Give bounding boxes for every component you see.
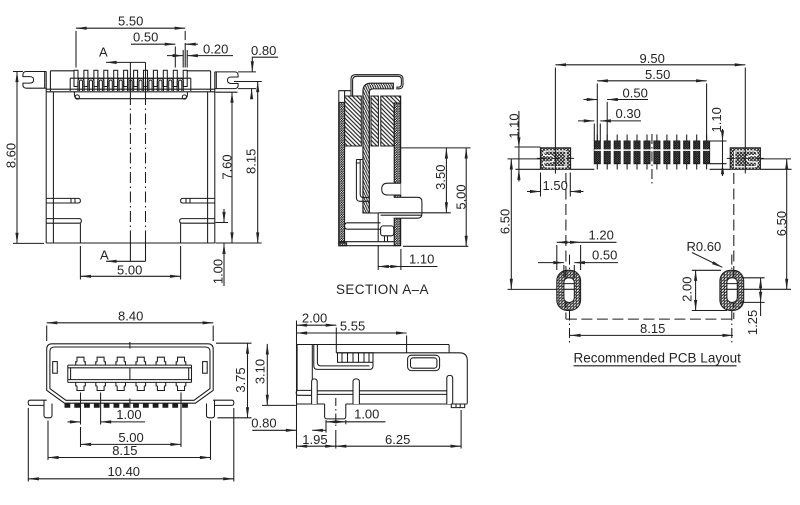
hook right fold tick bbox=[186, 198, 190, 203]
comb end walls bbox=[70, 78, 191, 91]
part centreline (vertical dash-dot) bbox=[651, 134, 653, 186]
left oval slot (white) bbox=[564, 278, 574, 303]
right 1.10 top extension bbox=[710, 141, 727, 164]
dim 0.30 extensions bbox=[594, 124, 600, 142]
svg-text:0.50: 0.50 bbox=[592, 248, 617, 263]
housing top cap outline bbox=[351, 75, 394, 96]
inner contact left L-line inner bbox=[360, 160, 369, 198]
big pad horizontal centrelines (dash-dot) bbox=[537, 157, 764, 159]
lower hook right wall drop bbox=[180, 223, 182, 243]
svg-text:1.00: 1.00 bbox=[210, 259, 225, 284]
pad bottom baseline segments bbox=[516, 168, 792, 170]
svg-text:3.50: 3.50 bbox=[433, 165, 448, 190]
contact pins row (12 pins) bbox=[74, 70, 187, 86]
outer edges bbox=[339, 96, 401, 246]
dim 0.50 arrows bbox=[131, 43, 175, 45]
dim 10.40 line bbox=[28, 478, 234, 480]
dim 10.40 extensions bbox=[28, 408, 234, 482]
side tab inner line bbox=[381, 214, 422, 216]
svg-text:1.10: 1.10 bbox=[409, 252, 434, 267]
upper side slot hook left bbox=[46, 198, 80, 203]
dim 1.20 line bbox=[557, 241, 581, 243]
body left inner edge bbox=[311, 345, 313, 391]
shell left inner wall bbox=[52, 92, 54, 243]
foot lead lines to bottom bbox=[385, 236, 388, 242]
dim 2.00 extensions bbox=[692, 270, 727, 310]
dim 0.30 arrows bbox=[578, 120, 594, 122]
tongue band top lines bbox=[68, 365, 192, 368]
svg-text:6.50: 6.50 bbox=[498, 209, 513, 234]
shell outer outline bbox=[47, 344, 214, 403]
tongue band right cap bbox=[189, 365, 192, 382]
dim 1.20 extensions bbox=[557, 245, 581, 270]
dim 0.50 arrows bbox=[584, 99, 598, 101]
dim 1.00 line bbox=[326, 421, 346, 423]
dim 8.15 extensions bbox=[48, 421, 211, 461]
svg-text:0.80: 0.80 bbox=[251, 43, 276, 58]
SMT pin 1 (rounded top) bbox=[312, 379, 318, 404]
svg-text:5.00: 5.00 bbox=[117, 263, 142, 278]
dim 1.00 arrows bbox=[68, 421, 81, 423]
shell inner outline bbox=[50, 347, 210, 400]
left tab pad fork symbol (white) bbox=[544, 151, 566, 167]
section arrow bottom bbox=[106, 260, 146, 262]
dim 5.00 line bbox=[81, 443, 182, 445]
dim 0.80 right arrow bbox=[312, 429, 326, 431]
housing top right hook bbox=[394, 75, 404, 89]
section line A-A left vertical bbox=[129, 62, 131, 261]
dim 2.00 extension bbox=[335, 328, 337, 345]
dim 1.95 line bbox=[297, 445, 336, 447]
dim 5.00 extensions bbox=[81, 393, 182, 448]
dim 0.80 left line/arrow bbox=[252, 429, 296, 431]
center pin lower extension line bbox=[377, 213, 379, 242]
right tab pad fork symbol (white) bbox=[735, 151, 757, 167]
dim 0.20 arrows bbox=[167, 55, 183, 57]
bottom standoff dashes bbox=[65, 403, 189, 407]
under-pin bracket with curled ends bbox=[74, 92, 187, 99]
dashed body outline bottom bbox=[566, 318, 734, 320]
dim 0.50 oval arrows bbox=[538, 262, 564, 264]
dim 7.60 extension bbox=[216, 91, 238, 93]
solder notch bbox=[325, 404, 346, 419]
contact stack dividers bbox=[342, 353, 369, 363]
dim 3.10 bottom extension bbox=[262, 404, 296, 406]
left reference extension line bbox=[296, 321, 298, 449]
dim 3.75 line bbox=[247, 343, 249, 418]
dim 8.15 extension bbox=[234, 81, 262, 83]
svg-text:8.15: 8.15 bbox=[640, 321, 665, 336]
dim 1.25 tail bbox=[760, 302, 762, 316]
svg-text:5.55: 5.55 bbox=[340, 318, 365, 333]
dim 0.50 extensions bbox=[175, 43, 185, 68]
right shield wall mid (stippled) bbox=[394, 195, 400, 197]
side solder tab bbox=[401, 197, 422, 218]
dim 9.50 extensions (pad centrelines) bbox=[555, 68, 745, 174]
svg-text:5.00: 5.00 bbox=[454, 184, 469, 209]
dim 6.50 right line bbox=[786, 159, 788, 289]
svg-text:0.20: 0.20 bbox=[203, 42, 228, 57]
body top edge bbox=[297, 344, 449, 346]
contact loops inner lines bbox=[79, 80, 181, 91]
latch window outer bbox=[408, 355, 440, 370]
body bottom right segment bbox=[346, 403, 468, 405]
left wall top cap bbox=[339, 91, 351, 103]
body bottom left segment bbox=[296, 403, 324, 405]
svg-text:1.25: 1.25 bbox=[745, 310, 760, 335]
contact stack bar bbox=[338, 353, 374, 363]
plastic body hatch middle block bbox=[371, 96, 378, 146]
dim 1.10 left top extension bbox=[515, 146, 541, 148]
left slot ticks bbox=[564, 284, 574, 290]
dim 5.50 line bbox=[597, 80, 706, 82]
dim 7.60 line bbox=[231, 92, 233, 243]
center contact bottom edge bbox=[363, 212, 378, 214]
labels side bbox=[302, 311, 410, 448]
svg-text:0.50: 0.50 bbox=[133, 30, 158, 45]
SMT pin 2 (rounded top) bbox=[353, 379, 359, 404]
dim 8.40 extensions bbox=[47, 326, 214, 342]
bent contact over top (hatched band) bbox=[363, 83, 394, 213]
right tab top extension bbox=[238, 71, 256, 73]
dim 2.00 line bbox=[297, 324, 337, 326]
rear feet pads bbox=[451, 404, 464, 408]
signal pads white midline bbox=[594, 149, 709, 151]
dim 8.15 line bbox=[570, 334, 733, 336]
svg-text:1.00: 1.00 bbox=[354, 407, 379, 422]
left leg bar bbox=[296, 390, 311, 395]
hook left fold tick bbox=[71, 198, 75, 203]
svg-text:1.10: 1.10 bbox=[506, 113, 521, 138]
dim 3.75 extensions bbox=[216, 343, 252, 418]
labels front bbox=[108, 309, 277, 479]
dashed body outline left bbox=[565, 173, 567, 319]
svg-text:10.40: 10.40 bbox=[108, 464, 141, 479]
dim 0.80 leader bbox=[252, 57, 278, 72]
svg-text:3.10: 3.10 bbox=[253, 359, 268, 384]
left mounting tab fork bbox=[23, 72, 46, 89]
dim 1.25 line bbox=[760, 278, 762, 303]
shell right outer wall bbox=[214, 89, 216, 243]
svg-text:3.75: 3.75 bbox=[233, 367, 248, 392]
dim 1.50 arrows bbox=[527, 191, 541, 193]
svg-text:1.50: 1.50 bbox=[543, 178, 568, 193]
svg-text:6.25: 6.25 bbox=[385, 432, 410, 447]
right slot ticks bbox=[727, 284, 737, 290]
dim 1.10 right bracket bbox=[722, 129, 724, 141]
contact rails bbox=[317, 391, 447, 395]
dim 0.80 lower arrow bbox=[251, 89, 253, 99]
dim 2.00 line bbox=[695, 270, 697, 310]
latch window (white) bbox=[382, 183, 401, 195]
dim 1.10 left bracket bbox=[518, 111, 520, 148]
dim 6.25 line bbox=[336, 445, 461, 447]
svg-text:7.60: 7.60 bbox=[219, 154, 234, 179]
dim 8.60 line bbox=[16, 72, 18, 244]
dim 6.50 right extensions bbox=[744, 159, 791, 289]
left tab bend lines bbox=[45, 71, 51, 92]
svg-text:6.50: 6.50 bbox=[774, 211, 789, 236]
dim 3.50 bottom extension bbox=[378, 212, 451, 214]
upper side slot hook right bbox=[181, 198, 215, 203]
labels section bbox=[336, 165, 469, 297]
dim 5.00 extensions bbox=[80, 246, 180, 280]
svg-text:8.60: 8.60 bbox=[3, 143, 18, 168]
dim 1.00 extensions bbox=[81, 393, 101, 425]
dim 8.15 line bbox=[257, 82, 259, 244]
svg-text:SECTION A–A: SECTION A–A bbox=[336, 282, 429, 297]
housing hook inner line bbox=[392, 76, 401, 87]
dim 8.60 extensions bbox=[13, 72, 44, 244]
contact strip top line behind pins bbox=[70, 77, 191, 79]
left oval centreline bbox=[569, 255, 571, 343]
right mounting tab fork bbox=[215, 72, 238, 89]
bottom extension right bbox=[216, 242, 262, 244]
svg-text:8.15: 8.15 bbox=[112, 443, 137, 458]
dims shared top extension bbox=[401, 147, 471, 149]
top-left folded contact inner bbox=[317, 345, 369, 366]
bottom right foot rounded rect bbox=[381, 226, 394, 236]
dim 1.00 arrows (right side) bbox=[223, 209, 225, 223]
right leg vertical stub bbox=[207, 400, 215, 418]
centreline ticks bbox=[129, 342, 131, 408]
SMT pin 3 (rounded top) bbox=[447, 375, 453, 404]
left shield wall (stippled) bbox=[339, 102, 345, 243]
section line A-A right vertical bbox=[145, 62, 147, 261]
svg-text:A: A bbox=[100, 248, 109, 263]
bottom inner line bbox=[339, 241, 394, 243]
right big tab pad (hatched) bbox=[730, 148, 760, 170]
section arrow top bbox=[106, 61, 146, 63]
inner contact left L-line outer bbox=[356, 160, 369, 202]
dim 1.10 tail bbox=[401, 266, 438, 268]
svg-text:1.20: 1.20 bbox=[589, 228, 614, 243]
right wall spring detent bbox=[203, 362, 208, 374]
right oval slot (white) bbox=[727, 278, 737, 303]
tongue band bottom lines bbox=[68, 380, 192, 383]
latch window inner bbox=[411, 358, 437, 368]
notch centreline (dash-dot) bbox=[335, 398, 337, 428]
shell right inner wall bbox=[207, 92, 209, 243]
bracket right curl bbox=[182, 95, 186, 99]
dim 5.50 line bbox=[76, 27, 185, 29]
dim 6.25 extensions bbox=[336, 410, 461, 449]
dim 6.50 left extensions bbox=[508, 159, 557, 290]
title underline bbox=[574, 365, 737, 367]
shell top plate line upper bbox=[46, 88, 215, 90]
housing top cap inner line bbox=[353, 76, 392, 96]
top step right bbox=[448, 345, 450, 353]
svg-text:0.80: 0.80 bbox=[251, 416, 276, 431]
dim 9.50 line bbox=[555, 64, 745, 66]
left leg horizontal bar bbox=[28, 400, 47, 405]
lower hook left bbox=[46, 219, 81, 224]
right shield wall lower (stippled) bbox=[394, 218, 400, 245]
dim 1.20 tail bbox=[581, 241, 617, 243]
dim 3.10 line bbox=[266, 344, 268, 406]
right tab bottom extension bbox=[238, 88, 256, 90]
dim 5.55 extension bbox=[406, 336, 408, 353]
dim 6.50 left line bbox=[510, 159, 512, 290]
svg-text:0.50: 0.50 bbox=[623, 86, 648, 101]
lower hook right bbox=[180, 219, 215, 224]
labels top view bbox=[3, 14, 276, 285]
svg-text:5.50: 5.50 bbox=[645, 67, 670, 82]
right shield wall upper (stippled) bbox=[394, 103, 400, 183]
bottom extension line bbox=[403, 245, 468, 247]
svg-text:R0.60: R0.60 bbox=[687, 239, 722, 254]
svg-text:9.50: 9.50 bbox=[640, 51, 665, 66]
bottom shield left end (stippled) bbox=[339, 243, 347, 246]
svg-text:2.00: 2.00 bbox=[679, 277, 694, 302]
tongue band left cap bbox=[68, 365, 71, 382]
top-left folded contact outer bbox=[314, 345, 373, 370]
dim 1.10 line with arrows bbox=[378, 266, 401, 268]
recess shelf line bbox=[336, 353, 467, 404]
left leg vertical stub bbox=[44, 400, 52, 418]
svg-text:8.15: 8.15 bbox=[244, 149, 259, 174]
svg-text:1.95: 1.95 bbox=[302, 432, 327, 447]
shell left outer wall bbox=[45, 88, 47, 243]
recess step left bbox=[335, 345, 337, 353]
dim 1.00 extensions bbox=[326, 420, 346, 433]
plastic body hatch right block bbox=[381, 96, 401, 146]
plastic body hatch left block bbox=[345, 96, 362, 146]
shell top plate line lower bbox=[46, 91, 215, 93]
svg-text:0.30: 0.30 bbox=[616, 106, 641, 121]
dim 5.50 extensions bbox=[597, 84, 706, 142]
shell bottom edge bbox=[46, 242, 215, 244]
dim 8.40 line bbox=[47, 322, 214, 324]
right oval centreline bbox=[731, 255, 733, 343]
dim 5.00 line bbox=[465, 148, 467, 246]
signal pad centre ticks bbox=[597, 135, 706, 170]
dim 0.20 extensions (pin edges) bbox=[183, 50, 187, 68]
dim 1.00 extension bbox=[216, 222, 229, 224]
dim 1.25 extensions bbox=[740, 278, 765, 303]
12 signal pads (hatched) bbox=[594, 141, 709, 164]
right leg horizontal bar bbox=[213, 400, 234, 405]
svg-text:1.10: 1.10 bbox=[709, 107, 724, 132]
dim 0.50 oval extensions bbox=[564, 265, 574, 278]
dim 3.50 line bbox=[445, 148, 447, 213]
body left outer edge bbox=[296, 345, 298, 391]
left wall spring detent bbox=[53, 362, 58, 374]
dim 5.55 line bbox=[297, 332, 407, 334]
shell top edge segment left of pins bbox=[50, 70, 74, 72]
dim 8.15 line bbox=[48, 457, 211, 459]
dashed body outline right bbox=[733, 173, 735, 319]
inner contact top tick bbox=[356, 160, 363, 164]
dim 1.00 tail bbox=[346, 421, 386, 423]
left big tab pad (hatched) bbox=[540, 148, 570, 170]
svg-text:1.00: 1.00 bbox=[116, 407, 141, 422]
lower contact teeth (6) bbox=[76, 382, 186, 390]
lower hook left wall drop bbox=[79, 223, 81, 243]
dim 1.50 extensions bbox=[541, 173, 571, 197]
labels pcb bbox=[498, 51, 789, 366]
svg-text:8.40: 8.40 bbox=[118, 309, 143, 324]
dim 0.50 extension bbox=[606, 102, 608, 141]
right tab bend lines bbox=[211, 71, 217, 92]
svg-text:A: A bbox=[99, 45, 108, 60]
bottom contact foot U-line bbox=[345, 223, 381, 229]
contact loops between pins bbox=[78, 78, 183, 91]
right oval pad (hatched) bbox=[720, 270, 744, 310]
dim 5.00 line (bottom) bbox=[80, 275, 180, 277]
svg-text:2.00: 2.00 bbox=[302, 311, 327, 326]
dim 5.50 extensions bbox=[76, 31, 185, 68]
upper contact teeth (6) bbox=[76, 357, 186, 365]
bracket left curl bbox=[75, 95, 79, 99]
shell top edge segment right of pins bbox=[187, 70, 210, 72]
left oval pad (hatched) bbox=[557, 270, 581, 310]
svg-text:Recommended PCB Layout: Recommended PCB Layout bbox=[574, 351, 742, 366]
dim 1.10 extensions bbox=[378, 245, 401, 270]
leader R0.60 bbox=[692, 253, 722, 268]
svg-text:5.50: 5.50 bbox=[118, 14, 143, 29]
